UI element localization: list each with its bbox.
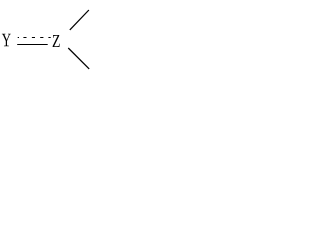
background (0, 0, 99, 80)
bond from Z to upper right (70, 10, 89, 30)
solid bond Y-Z (17, 44, 48, 45)
partial (dashed) bond Y-Z (18, 37, 51, 38)
atom label Z (53, 35, 60, 47)
bond from Z to lower right (68, 48, 89, 69)
atom label Y (2, 34, 11, 47)
